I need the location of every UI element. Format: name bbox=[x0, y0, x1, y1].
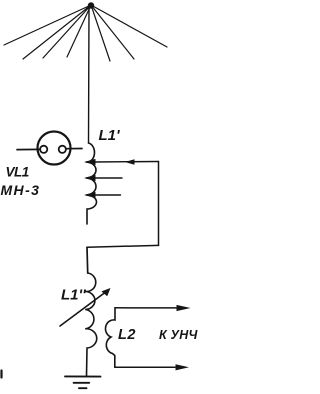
inductor L2 (2 loops bulging left) bbox=[105, 308, 115, 367]
wire: L2 bottom to output bbox=[115, 366, 175, 368]
output arrowhead top bbox=[177, 305, 191, 311]
svg-text:L1': L1' bbox=[99, 127, 121, 144]
wire: bottom horizontal return bbox=[87, 245, 159, 247]
svg-text:МН-3: МН-3 bbox=[1, 182, 41, 198]
svg-text:L2: L2 bbox=[118, 327, 136, 343]
wire: tap2 stub bbox=[94, 177, 122, 179]
tap arrow 3 at coil bbox=[84, 192, 96, 198]
inductor L1' (4 loops bulging right) bbox=[86, 143, 97, 224]
wire: right vertical feedback branch bbox=[158, 162, 160, 246]
svg-text:К УНЧ: К УНЧ bbox=[159, 328, 198, 342]
wire: tap3 stub bbox=[94, 194, 121, 196]
wire: junction down to L1'' bbox=[86, 247, 89, 273]
page artifact: cropped letter at left edge bbox=[0, 371, 2, 378]
inductor L1'' variable (4 loops bulging right) bbox=[85, 273, 97, 376]
variable-inductor diagonal arrow bbox=[60, 288, 111, 326]
wire: L2 top to output bbox=[115, 307, 177, 309]
wire: antenna lead-in vertical bbox=[88, 7, 91, 143]
svg-text:VL1: VL1 bbox=[6, 165, 29, 180]
neon lamp VL1 (circle with two electrode dots and leads) bbox=[17, 132, 82, 165]
antenna WA1 (fan of rays with apex dot) bbox=[4, 2, 167, 61]
ground symbol bbox=[65, 376, 101, 388]
svg-text:L1'': L1'' bbox=[61, 287, 86, 304]
wire: tap1 to right bus bbox=[94, 161, 159, 164]
output arrowhead bottom bbox=[176, 364, 190, 370]
tap arrow 2 at coil bbox=[84, 175, 96, 181]
arrowhead on tap1 feed line bbox=[125, 159, 135, 164]
tap arrow 1 at coil bbox=[84, 159, 96, 165]
